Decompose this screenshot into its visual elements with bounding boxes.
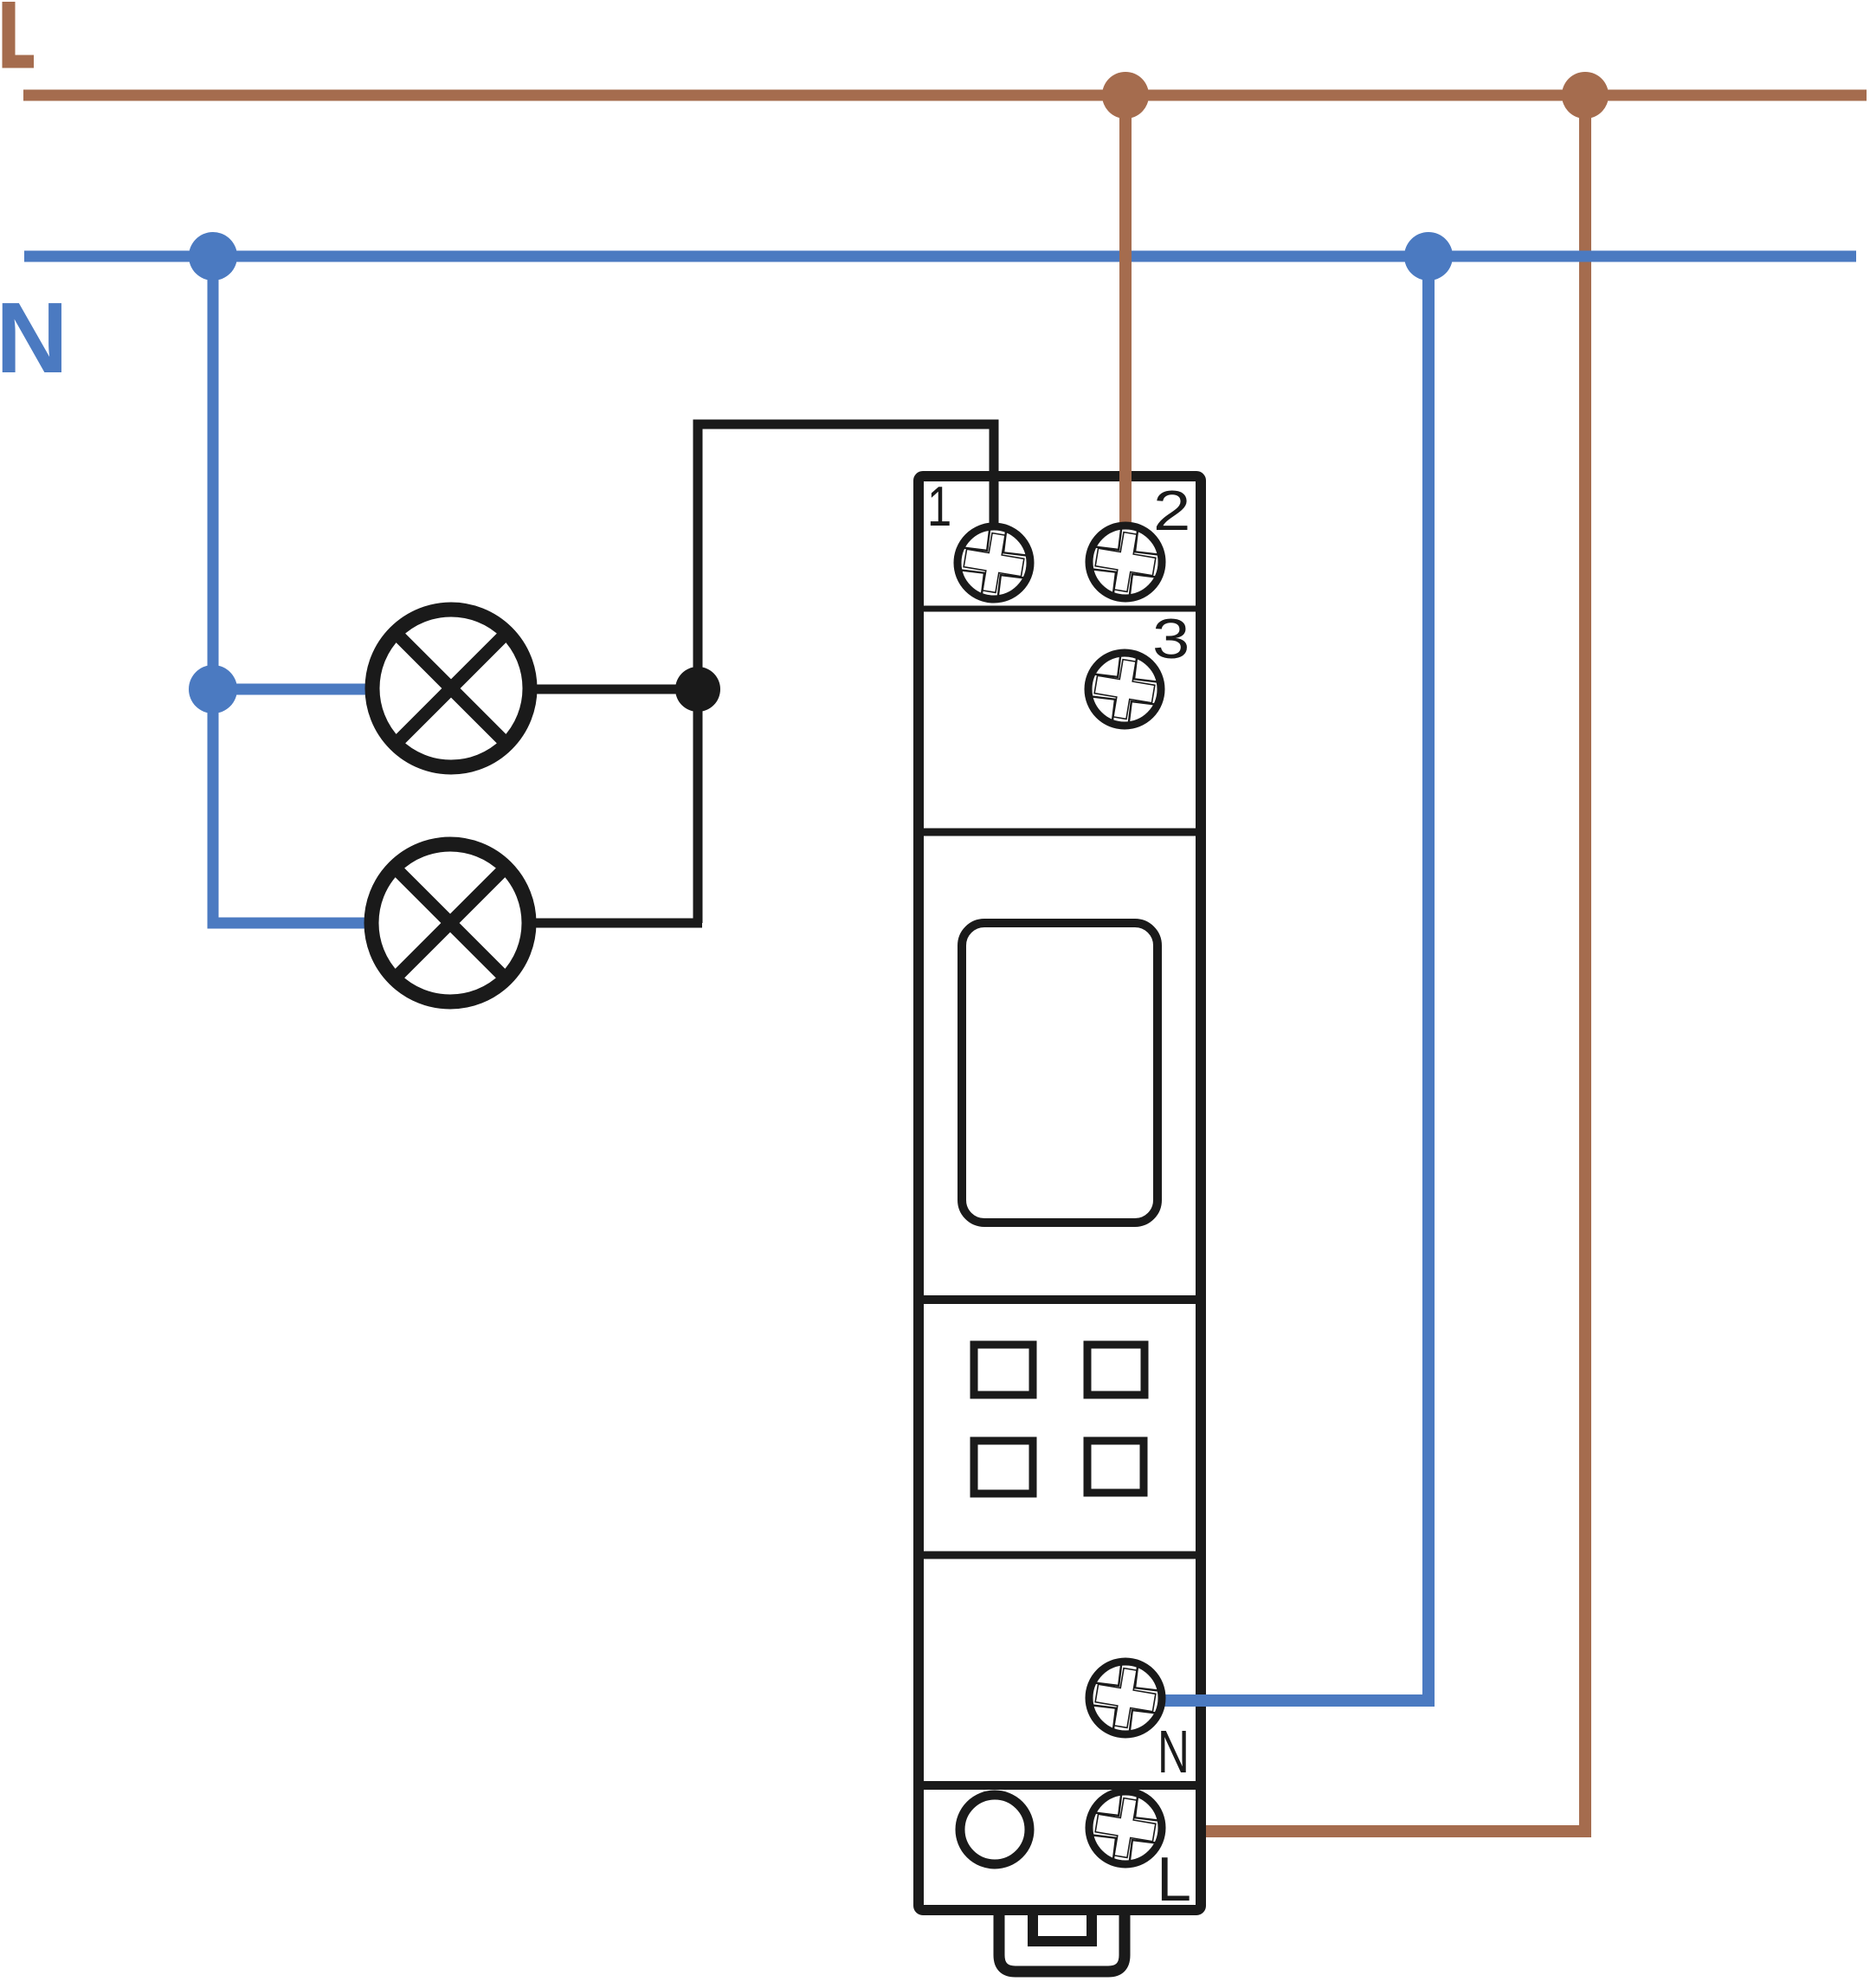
svg-text:1: 1: [927, 475, 951, 538]
wire: brown drop from L bus junction 1 to terminal 2: [1119, 90, 1132, 530]
device: display window: [962, 923, 1157, 1223]
device: DIN clip tab outer: [999, 1915, 1125, 1972]
device: button square top-left: [974, 1345, 1033, 1395]
terminal screw 2: [1085, 521, 1166, 603]
wire: blue branch to lamps (vertical x=246 and stub to lamp 2): [213, 251, 367, 923]
terminal screw L: [1085, 1787, 1166, 1869]
terminal screw 1: [953, 522, 1035, 603]
wire: brown L bus (horizontal y=110): [23, 90, 1867, 101]
lamp E1: [372, 610, 530, 767]
terminal screw 3: [1084, 649, 1165, 730]
lamp E2: [371, 844, 529, 1002]
svg-text:N: N: [0, 281, 68, 394]
device: divider under buttons: [924, 1552, 1196, 1559]
device: button square top-right: [1087, 1345, 1145, 1395]
wire: blue stub to lamp 1: [213, 684, 369, 695]
device: divider under terminal 3: [924, 829, 1196, 836]
wire: black lamp 2 to junction riser: [532, 919, 702, 928]
svg-text:N: N: [1157, 1718, 1190, 1785]
device: DIN rail module body: [919, 476, 1201, 1910]
svg-text:L: L: [1157, 1845, 1191, 1914]
device: button square bottom-right: [1087, 1441, 1144, 1493]
wire: black lamp 1 to junction: [532, 685, 698, 694]
node: N bus junction right: [1404, 232, 1453, 281]
wire: brown L drop to terminal L (vertical x=1831 + stub to screw L): [1160, 90, 1585, 1831]
wire: blue N bus (horizontal y=296): [24, 251, 1856, 262]
node: L bus junction 2: [1562, 72, 1609, 119]
svg-text:3: 3: [1152, 608, 1190, 670]
label: L (line): [3, 2, 35, 68]
wire: blue from N bus junction right to terminal N: [1160, 251, 1428, 1701]
device: divider between N and L terminals: [924, 1781, 1196, 1790]
node: lamp branch junction: [189, 665, 237, 713]
device: divider under window: [924, 1295, 1196, 1304]
device: indicator circle in L section: [960, 1795, 1029, 1864]
wire: black riser and run to terminal 1: [698, 424, 994, 923]
node: N bus junction left: [189, 232, 237, 281]
device: button square bottom-left: [974, 1441, 1033, 1494]
terminal screw N: [1085, 1657, 1166, 1739]
node: black junction at lamp 1: [675, 667, 720, 712]
node: L bus junction 1: [1102, 72, 1149, 119]
svg-text:2: 2: [1153, 480, 1190, 542]
device: divider under terminals 1-2: [924, 606, 1196, 612]
device: DIN clip tab notch: [1033, 1915, 1092, 1941]
